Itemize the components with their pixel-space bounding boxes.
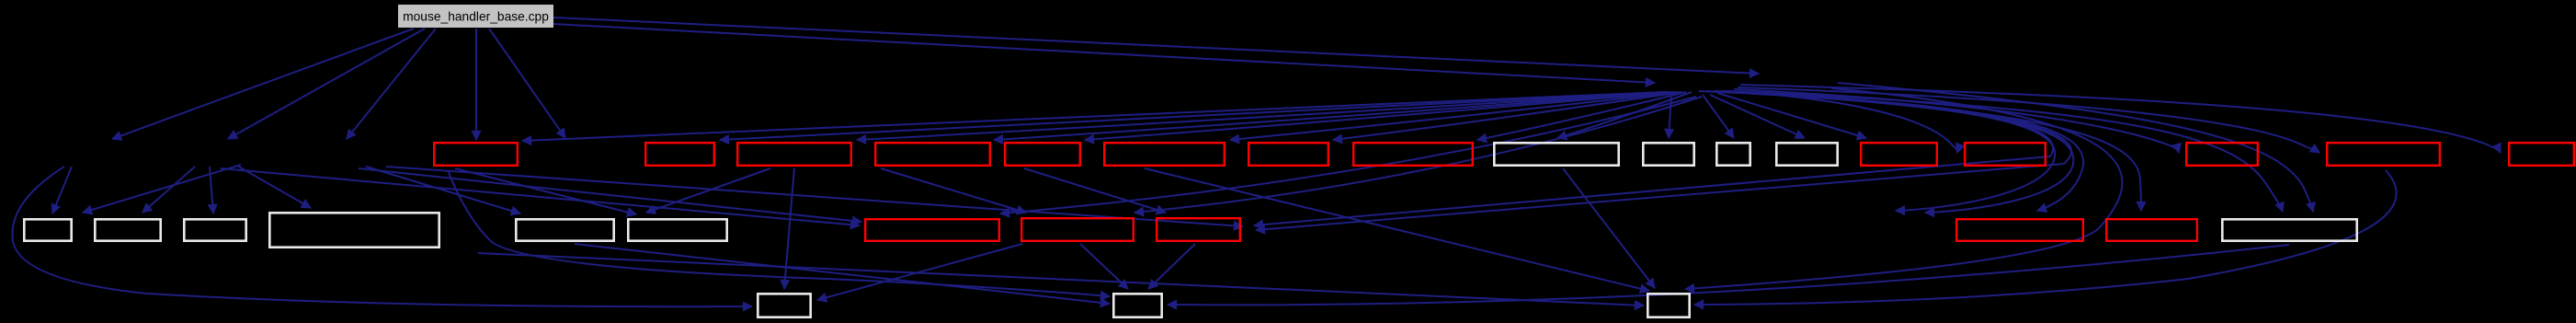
node R1	[434, 143, 518, 166]
edge hub1 to W3	[1703, 95, 1734, 138]
node B1	[758, 294, 810, 317]
edge R3 to F	[646, 168, 770, 213]
edge n2 to A	[83, 165, 241, 213]
node R13	[2509, 143, 2574, 166]
edge hub1 to W4	[1710, 95, 1805, 138]
node Q2	[2106, 219, 2197, 241]
edge hub to P2 arc	[1134, 97, 1702, 213]
edge R1 to B2 arc	[448, 170, 1110, 296]
svg-text:mouse_handler_base.cpp: mouse_handler_base.cpp	[403, 10, 549, 24]
node R6	[1104, 143, 1225, 166]
edge root to hub2	[553, 17, 1759, 74]
edge hub1 to W2	[1669, 95, 1671, 138]
node W4	[1776, 143, 1837, 165]
node E	[516, 219, 613, 240]
node R7	[1248, 143, 1328, 166]
node P2	[1021, 218, 1134, 241]
node R8	[1353, 143, 1473, 166]
node A	[24, 219, 71, 240]
node R11	[2186, 143, 2258, 166]
edge root to n3	[347, 29, 436, 139]
edge hub1 to R7	[1333, 92, 1682, 140]
node root mouse_handler_base.cpp	[398, 5, 553, 28]
edge R12 to B3 arc	[1694, 170, 2397, 305]
edge hub to Q3 a arc	[1727, 91, 2283, 212]
edge hub1 to R5	[1085, 92, 1675, 140]
node R5	[1005, 143, 1080, 166]
node C	[184, 219, 245, 240]
node W2	[1643, 143, 1693, 165]
node R9	[1861, 143, 1937, 166]
edge root to R1	[475, 29, 477, 140]
edge W1 to B3	[1563, 168, 1655, 288]
edge Q3 to B2 arc	[1168, 245, 2289, 305]
edge root to hub1	[553, 24, 1655, 83]
node Q1	[1956, 219, 2083, 241]
node P3	[1157, 218, 1240, 241]
node F	[628, 219, 726, 240]
edge P2 to B1	[817, 244, 1022, 300]
node W3	[1716, 143, 1750, 165]
edge hub1 to R1	[522, 92, 1664, 141]
edge hub1 to R2	[720, 92, 1667, 140]
edge hub1 to W1	[1557, 92, 1692, 138]
node R4	[875, 143, 990, 166]
edge hub to z2 arc	[1706, 91, 2073, 213]
edge R1 to F	[455, 168, 636, 214]
edge hub to P3 a arc	[1254, 91, 2053, 225]
edge hub to R11 arc	[1734, 89, 2179, 153]
edge n2 to B	[142, 167, 195, 213]
node R3	[737, 143, 851, 166]
edge F to B3	[478, 253, 1644, 306]
edge hub to z1 arc	[1699, 91, 2055, 211]
edge hub to Q3 b arc	[1838, 83, 2313, 212]
node D	[269, 213, 439, 247]
edge hub to P1 arc	[1000, 97, 1696, 213]
edge hub1 to R9	[1717, 93, 1866, 138]
edge n3 to P1	[359, 168, 861, 222]
edge n3 to E	[366, 167, 520, 213]
edge E to B2	[575, 244, 1110, 304]
node P1	[865, 219, 999, 241]
node B	[95, 219, 160, 240]
edge root to n4	[489, 29, 565, 138]
edge hub to R13 arc	[1740, 85, 2501, 153]
edge n2 to P1 b	[221, 168, 860, 225]
edge n2 to C	[210, 167, 213, 213]
edge n1 to A	[52, 167, 72, 213]
edge root to n1	[112, 29, 414, 139]
edge P3 to B2	[1148, 244, 1195, 289]
edge n1 to B1 arc	[12, 167, 752, 306]
edge n2 to D	[237, 166, 311, 208]
edge hub1 to R8	[1477, 92, 1686, 140]
edge hub1 to R3	[857, 92, 1670, 140]
edge hub1 to R4	[994, 92, 1672, 140]
node R2	[645, 143, 714, 166]
edge hub to P3 b arc	[1256, 91, 2071, 230]
edge n3 to P3	[386, 167, 1243, 226]
edge R6 to B3	[1145, 168, 1649, 291]
node R10	[1965, 143, 2046, 166]
edge P2 to B2	[1080, 244, 1128, 289]
node Q3	[2222, 219, 2356, 240]
edge hub to R10 arc	[1728, 91, 1957, 153]
edge R5 to P3	[1024, 168, 1166, 213]
edge hub to R12 arc	[1738, 87, 2320, 153]
edge hub1 to R6	[1230, 92, 1679, 140]
node W1	[1494, 143, 1618, 165]
edge hub to Q2 arc	[1721, 91, 2141, 211]
edge hub to Q1 arc	[1714, 91, 2083, 211]
edge R4 to P2	[881, 168, 1026, 213]
node B2	[1113, 294, 1161, 317]
node R12	[2327, 143, 2440, 166]
edge hub to B3 arc	[1685, 88, 2122, 289]
node B3	[1647, 294, 1689, 317]
edge R3 to B1	[784, 168, 794, 289]
edge root to n2	[228, 29, 425, 139]
